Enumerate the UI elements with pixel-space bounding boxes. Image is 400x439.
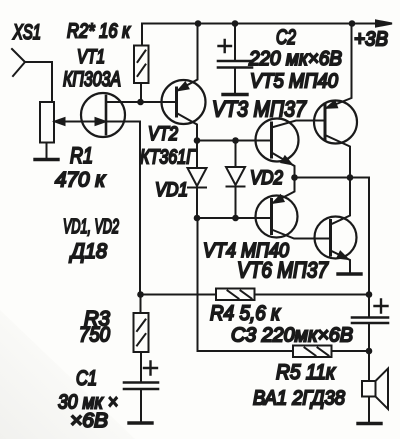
capacitor C3 bbox=[352, 316, 388, 319]
C2 plus sign bbox=[219, 40, 232, 52]
svg-text:ВА1 2ГД38: ВА1 2ГД38 bbox=[253, 388, 345, 410]
svg-text:КТ361Г: КТ361Г bbox=[140, 147, 197, 169]
wire C1 bottom bbox=[140, 389, 142, 422]
node VD1 top bbox=[194, 137, 201, 144]
C3 plus sign bbox=[375, 300, 388, 313]
wire source node to R4 bbox=[141, 294, 217, 296]
R1 wiper arrow bbox=[55, 118, 65, 125]
svg-text:VD2: VD2 bbox=[250, 168, 283, 189]
wire R1 bottom bbox=[46, 143, 48, 159]
node VT2 emitter rail bbox=[195, 20, 202, 27]
R2 power slashes bbox=[138, 51, 146, 77]
svg-text:VD1: VD1 bbox=[155, 180, 188, 201]
node VD2 bottom bbox=[232, 215, 239, 222]
node C2 rail bbox=[232, 20, 239, 27]
node source R3 R4 bbox=[137, 291, 144, 298]
connector XS1 bbox=[12, 49, 25, 76]
svg-text:R4 5,6 к: R4 5,6 к bbox=[210, 302, 281, 325]
VT6 emitter arrow bbox=[338, 252, 348, 259]
VT1 drain lead bbox=[106, 101, 141, 103]
svg-text:R1: R1 bbox=[70, 143, 93, 168]
VT2 emitter arrow bbox=[179, 83, 189, 91]
node speaker top bbox=[366, 348, 373, 355]
wire R2 bottom bbox=[140, 83, 142, 102]
resistor R4 bbox=[216, 289, 255, 301]
VT2 collector bbox=[177, 113, 198, 141]
VT4 collector bbox=[272, 230, 331, 239]
VT6 collector bbox=[331, 178, 351, 225]
svg-text:+3В: +3В bbox=[354, 29, 388, 51]
VT6 base bar bbox=[329, 221, 332, 256]
node VT5 VT6 collectors bbox=[347, 174, 354, 181]
transistor VT1 body bbox=[81, 93, 125, 137]
node C3 top bbox=[366, 291, 373, 298]
ground under C2 bbox=[223, 93, 247, 96]
VT5 emitter bbox=[325, 24, 352, 109]
R3 power slashes bbox=[137, 320, 146, 346]
ground under speaker bbox=[358, 422, 381, 425]
wire R1 wiper to VT1 gate bbox=[55, 121, 104, 123]
VT1 gate arrow bbox=[96, 118, 106, 125]
svg-text:С1: С1 bbox=[76, 367, 97, 390]
wire C2 bottom bbox=[234, 68, 236, 94]
VT3 emitter arrow bbox=[282, 157, 292, 165]
ground under C1 bbox=[129, 421, 152, 424]
VT4 emitter arrow bbox=[274, 195, 284, 202]
wire node to R3 bbox=[140, 295, 142, 314]
VT3 base bar bbox=[270, 123, 273, 157]
svg-text:VT6 МП37: VT6 МП37 bbox=[237, 258, 329, 283]
wire speaker bottom lead bbox=[368, 397, 370, 423]
wire VD rail down to R5 bbox=[198, 218, 294, 351]
svg-text:VD1, VD2: VD1, VD2 bbox=[63, 216, 119, 238]
diode VD2 bbox=[226, 141, 245, 219]
power arrow +3V bbox=[376, 21, 392, 27]
resistor R2 bbox=[134, 46, 149, 84]
capacitor C1 bbox=[124, 381, 158, 384]
wire speaker top lead bbox=[368, 351, 370, 381]
svg-text:XS1: XS1 bbox=[12, 21, 41, 44]
C1 plus sign bbox=[144, 362, 157, 375]
transistor VT2 body bbox=[162, 80, 206, 124]
VT5 collector bbox=[325, 135, 350, 178]
svg-text:470 к: 470 к bbox=[55, 169, 106, 192]
svg-text:VT5 МП40: VT5 МП40 bbox=[250, 71, 338, 93]
transistor VT3 body bbox=[256, 119, 299, 162]
wire XS1 to R1 bbox=[25, 62, 52, 102]
ground under VT6 bbox=[338, 272, 361, 275]
VT1 channel bar bbox=[105, 96, 108, 134]
wire VT2 collector to VT3 base bbox=[197, 140, 272, 142]
svg-text:R5 11к: R5 11к bbox=[276, 361, 336, 384]
node VT5 emitter rail bbox=[349, 20, 356, 27]
VT5 emitter arrow bbox=[327, 101, 337, 108]
svg-text:VT3 МП37: VT3 МП37 bbox=[212, 97, 307, 122]
VT3 emitter bbox=[272, 153, 295, 178]
VT4 base bar bbox=[270, 200, 273, 234]
diode VD1 bbox=[188, 141, 207, 219]
wire R5 to speaker node bbox=[332, 350, 370, 352]
svg-text:R2* 16 к: R2* 16 к bbox=[67, 21, 131, 43]
node VD2 top bbox=[232, 137, 239, 144]
VT5 base bar bbox=[324, 104, 327, 139]
svg-text:С3 220мк×6В: С3 220мк×6В bbox=[231, 325, 353, 347]
transistor VT6 body bbox=[315, 217, 357, 259]
capacitor C2 bbox=[218, 60, 252, 63]
R4 power slashes bbox=[228, 291, 252, 299]
wire C2 top bbox=[234, 24, 236, 61]
svg-text:750: 750 bbox=[79, 324, 110, 347]
R5 power slashes bbox=[305, 348, 329, 356]
resistor R5 bbox=[293, 346, 332, 358]
wire C3 bottom lead bbox=[368, 323, 370, 351]
transistor VT4 body bbox=[256, 196, 298, 238]
svg-text:220 мк×6В: 220 мк×6В bbox=[248, 48, 342, 70]
VT3 collector bbox=[272, 121, 326, 128]
wire C3 top lead bbox=[368, 295, 370, 317]
svg-text:С2: С2 bbox=[276, 26, 296, 49]
ground under R1 bbox=[35, 158, 58, 161]
svg-text:КП303А: КП303А bbox=[63, 68, 121, 91]
potentiometer R1 bbox=[40, 102, 54, 143]
loudspeaker BA1 bbox=[362, 369, 388, 410]
wire VT1 drain to VT2 base bbox=[141, 101, 177, 103]
VT2 emitter bbox=[177, 24, 198, 92]
VT1 source lead bbox=[106, 122, 140, 295]
svg-text:VT2: VT2 bbox=[148, 124, 178, 145]
wire VD bottom rail to VT4 base bbox=[197, 217, 272, 219]
svg-text:Д18: Д18 bbox=[69, 240, 107, 263]
wire mid rail bbox=[295, 178, 370, 295]
wire R3 to C1 bbox=[140, 352, 142, 381]
transistor VT5 body bbox=[314, 101, 357, 144]
svg-text:×6В: ×6В bbox=[70, 410, 108, 432]
wire R2 top bbox=[141, 24, 143, 46]
svg-text:VT1: VT1 bbox=[77, 47, 105, 68]
node VT1 drain bbox=[137, 99, 144, 106]
resistor R3 bbox=[134, 313, 149, 352]
wire R4 to C3 node bbox=[255, 294, 370, 296]
node VD1 bottom bbox=[194, 215, 201, 222]
power rail +3V bbox=[142, 23, 379, 25]
VT2 base bar bbox=[175, 88, 178, 116]
node VT3 VT4 emitters bbox=[291, 174, 298, 181]
VT6 emitter bbox=[331, 251, 351, 273]
VT4 emitter bbox=[272, 178, 295, 204]
